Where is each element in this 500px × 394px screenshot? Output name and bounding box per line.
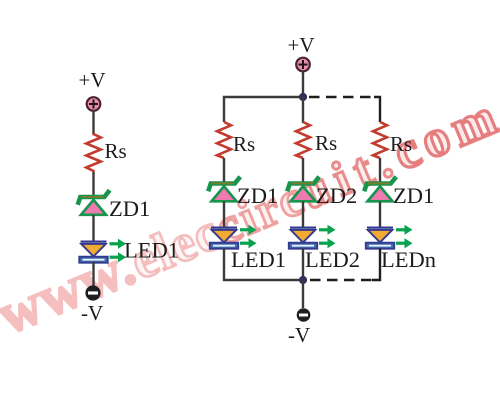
- wire zener2 to LED2: [302, 202, 304, 229]
- LED LED2 (branch 2): [289, 225, 336, 249]
- resistor Rs (branch 3): [373, 122, 387, 158]
- svg-text:ZD1: ZD1: [393, 183, 434, 208]
- svg-text:Rs: Rs: [315, 131, 337, 155]
- zener diode ZD1 (left): [78, 190, 110, 215]
- resistor Rs (branch 2): [296, 122, 310, 158]
- LED LED1 (left): [79, 239, 126, 263]
- svg-text:LED2: LED2: [305, 247, 360, 272]
- wire terminal to resistor (left): [92, 111, 94, 134]
- zener diode ZD1 (branch 1): [208, 177, 240, 202]
- wire resistor2 to zener2: [302, 158, 304, 184]
- svg-text:Rs: Rs: [105, 139, 127, 163]
- wire resistor3 to zener3: [379, 158, 381, 184]
- wire LED to -V terminal (left): [92, 262, 94, 287]
- node bottom junction: [299, 276, 307, 284]
- svg-text:-V: -V: [288, 323, 310, 347]
- wire bottom bus right corner: [372, 249, 380, 281]
- terminal +V (left): [87, 97, 101, 111]
- watermark www.eleccircuit.com: [0, 80, 500, 347]
- wire node to resistor 2: [302, 97, 304, 123]
- svg-text:LEDn: LEDn: [381, 247, 436, 272]
- svg-text:LED1: LED1: [124, 238, 179, 263]
- wire zener1 to LED1: [223, 202, 225, 229]
- wire top bus right corner: [374, 97, 380, 122]
- wire resistor to zener (left): [92, 172, 94, 197]
- zener diode ZD2 (branch 2): [287, 177, 319, 202]
- terminal -V (left): [85, 285, 100, 300]
- wire node to -V terminal (right): [302, 280, 304, 308]
- wire resistor1 to zener1: [223, 158, 225, 184]
- node top junction: [299, 93, 307, 101]
- svg-text:+V: +V: [287, 33, 314, 57]
- svg-text:-V: -V: [81, 301, 103, 325]
- LED LEDn (branch 3): [366, 225, 413, 249]
- resistor Rs (branch 1): [217, 122, 231, 158]
- wire zener3 to LEDn: [379, 202, 381, 229]
- wire LED1 to bottom bus: [224, 249, 303, 281]
- svg-text:ZD1: ZD1: [237, 183, 278, 208]
- terminal -V (right): [297, 308, 311, 322]
- svg-text:www.eleccircuit.com: www.eleccircuit.com: [0, 80, 500, 347]
- svg-text:ZD2: ZD2: [316, 183, 357, 208]
- svg-text:+V: +V: [78, 68, 105, 92]
- wire terminal to top node (right): [302, 71, 304, 97]
- wire bottom bus dashed: [310, 279, 372, 282]
- svg-text:Rs: Rs: [233, 132, 255, 156]
- wire top bus solid: [224, 97, 303, 122]
- wire top bus dashed: [309, 96, 374, 99]
- terminal +V (right): [296, 58, 310, 72]
- svg-text:Rs: Rs: [390, 132, 412, 156]
- resistor Rs (left): [86, 133, 101, 172]
- svg-text:ZD1: ZD1: [109, 196, 150, 221]
- LED LED1 (branch 1): [210, 225, 257, 249]
- wire zener to LED (left): [92, 215, 94, 242]
- wire LED2 to bottom bus: [302, 249, 304, 281]
- zener diode ZD1 (branch 3): [364, 177, 396, 202]
- svg-text:LED1: LED1: [231, 247, 286, 272]
